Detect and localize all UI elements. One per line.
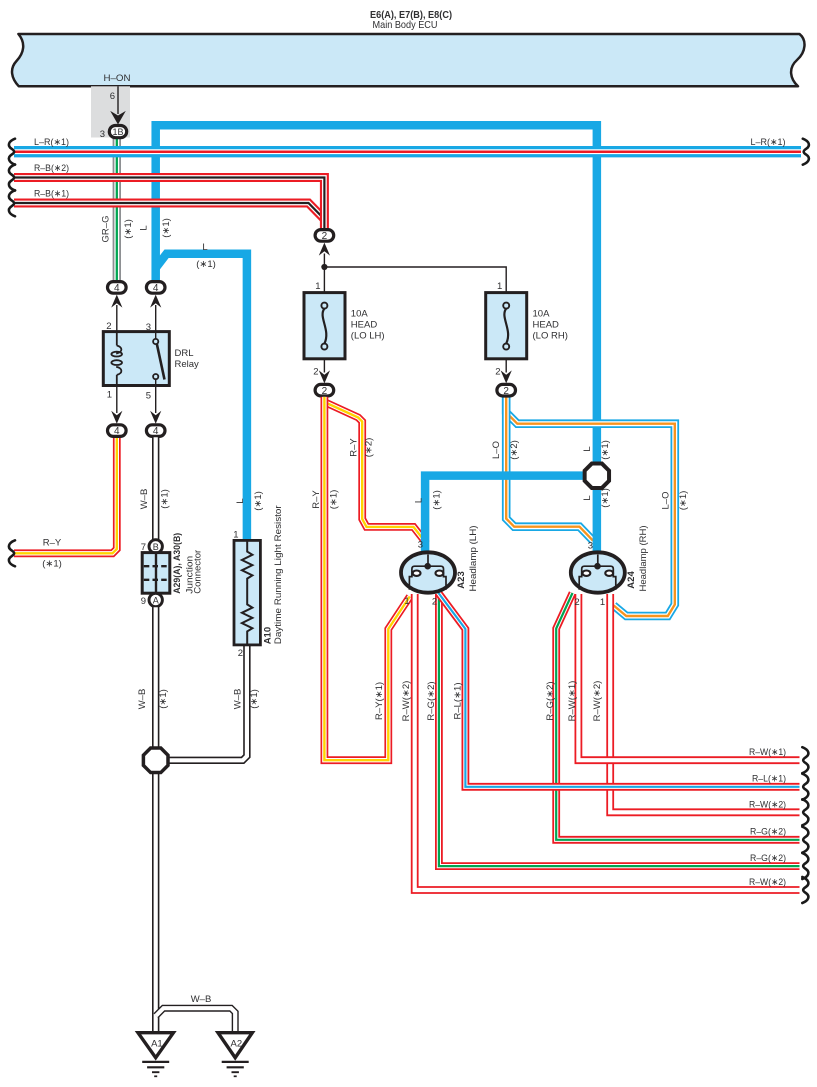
wire fuse LH pin2 bbox=[323, 359, 325, 373]
svg-text:6: 6 bbox=[110, 91, 115, 102]
oval connector 4 (below pin5) bbox=[146, 425, 165, 437]
svg-text:DRL: DRL bbox=[175, 348, 194, 359]
svg-text:R–B(∗2): R–B(∗2) bbox=[34, 163, 69, 174]
svg-text:Main Body ECU: Main Body ECU bbox=[373, 19, 438, 31]
svg-text:(∗1): (∗1) bbox=[42, 559, 62, 570]
svg-text:3: 3 bbox=[418, 540, 423, 551]
svg-text:L: L bbox=[202, 242, 207, 253]
svg-text:1: 1 bbox=[233, 530, 238, 541]
svg-text:GR–G: GR–G bbox=[101, 216, 112, 243]
octagon splice (ground) bbox=[143, 748, 168, 773]
arrow up into oval 4 left bbox=[111, 295, 122, 308]
wire R-B (*2) horizontal + drop bbox=[14, 178, 324, 229]
ground A2 triangle bbox=[218, 1033, 252, 1058]
break symbol right R-W(*2) bbox=[802, 799, 808, 825]
svg-text:1: 1 bbox=[404, 596, 409, 607]
svg-text:A29(A), A30(B): A29(A), A30(B) bbox=[172, 533, 183, 594]
fuse 10A HEAD (LO LH) bbox=[304, 293, 345, 359]
wire L thick trunk (cyan) bbox=[156, 125, 597, 462]
svg-text:HEAD: HEAD bbox=[533, 320, 560, 331]
svg-text:(LO RH): (LO RH) bbox=[533, 331, 568, 342]
svg-text:W–B: W–B bbox=[139, 489, 150, 510]
wire L-O (*1) fuse RH to headlamp RH pin1 bbox=[506, 397, 675, 616]
wire R-L (*1) headlamp LH pin2 to output2 bbox=[439, 593, 800, 787]
svg-text:2: 2 bbox=[322, 386, 328, 397]
svg-text:HEAD: HEAD bbox=[351, 320, 378, 331]
break symbol left L-R bbox=[9, 139, 15, 165]
svg-text:Connector: Connector bbox=[193, 550, 204, 594]
wire R-G (*2) headlamp LH pin2 to output5 bbox=[439, 594, 800, 866]
oval connector 4 (below pin1) bbox=[108, 425, 127, 437]
break symbol left R-B2 bbox=[9, 165, 15, 191]
wire R-G (*2) headlamp RH pin2 to output4 bbox=[556, 593, 799, 840]
svg-text:R–Y(∗1): R–Y(∗1) bbox=[374, 682, 385, 720]
wire from relay pin 1 bbox=[116, 386, 118, 414]
wire R-Y relay pin1 to left break bbox=[14, 437, 117, 553]
wire R-W (*2) headlamp LH pin1 to output6 bbox=[415, 594, 800, 890]
svg-text:R–G(∗2): R–G(∗2) bbox=[750, 827, 786, 838]
svg-text:Daytime Running Light Resistor: Daytime Running Light Resistor bbox=[273, 505, 284, 644]
svg-text:R–W(∗2): R–W(∗2) bbox=[749, 877, 786, 888]
svg-text:1: 1 bbox=[315, 281, 320, 292]
svg-text:(∗1): (∗1) bbox=[196, 259, 216, 270]
junction node dot bbox=[321, 264, 327, 270]
svg-text:L: L bbox=[414, 498, 425, 503]
wire L-O (*2) fuse RH to headlamp RH pin3 bbox=[506, 399, 593, 541]
svg-text:(∗1): (∗1) bbox=[253, 491, 264, 511]
wire R-B (*1) horizontal merge bbox=[14, 203, 324, 219]
wire W-B octagon to A10 pin2 bbox=[167, 645, 247, 760]
svg-text:A23: A23 bbox=[456, 571, 467, 588]
connector shade box (pin 6 / 1B) bbox=[91, 86, 130, 137]
wire R-W (*2) headlamp RH pin1 to output3 bbox=[610, 594, 799, 812]
svg-text:R–W(∗1): R–W(∗1) bbox=[567, 681, 578, 722]
svg-text:L: L bbox=[582, 495, 593, 500]
svg-text:R–L(∗1): R–L(∗1) bbox=[453, 683, 464, 720]
svg-text:(∗1): (∗1) bbox=[600, 488, 611, 508]
svg-text:2: 2 bbox=[503, 386, 509, 397]
oval connector 2 below fuse RH bbox=[497, 384, 516, 396]
svg-text:L: L bbox=[582, 446, 593, 451]
ground symbol A2 bbox=[222, 1062, 249, 1076]
wire L branch to DRL resistor bbox=[156, 254, 247, 541]
arrow into 1B bbox=[110, 111, 126, 125]
svg-text:4: 4 bbox=[153, 283, 159, 294]
svg-text:2: 2 bbox=[313, 367, 318, 378]
svg-text:1: 1 bbox=[497, 281, 502, 292]
arrow up into oval 2 bbox=[319, 243, 330, 256]
svg-text:A2: A2 bbox=[230, 1039, 242, 1050]
svg-text:H–ON: H–ON bbox=[104, 73, 131, 84]
svg-text:3: 3 bbox=[100, 129, 105, 140]
svg-text:(∗1): (∗1) bbox=[329, 490, 340, 510]
svg-text:W–B: W–B bbox=[233, 689, 244, 710]
svg-text:2: 2 bbox=[432, 597, 437, 608]
wire W-B oval4 to circle B bbox=[152, 437, 159, 539]
svg-text:2: 2 bbox=[238, 648, 243, 659]
break symbol right R-W(*1) bbox=[802, 747, 808, 773]
svg-text:R–L(∗1): R–L(∗1) bbox=[752, 774, 786, 785]
wire GR-G from 1B to relay bbox=[113, 139, 121, 281]
resistor element bbox=[242, 540, 253, 645]
svg-text:10A: 10A bbox=[533, 309, 551, 320]
svg-text:R–B(∗1): R–B(∗1) bbox=[34, 189, 69, 200]
relay coil bbox=[111, 332, 122, 386]
arrow up into oval 4 right bbox=[150, 295, 161, 308]
svg-text:R–W(∗2): R–W(∗2) bbox=[401, 681, 412, 722]
svg-text:(∗1): (∗1) bbox=[432, 490, 443, 510]
svg-text:(∗2): (∗2) bbox=[509, 440, 520, 460]
svg-text:W–B: W–B bbox=[191, 994, 212, 1005]
circle terminal B bbox=[149, 540, 162, 553]
svg-text:1: 1 bbox=[600, 597, 605, 608]
wire L drop to headlamp LH pin3 bbox=[425, 476, 583, 553]
svg-text:2: 2 bbox=[495, 367, 500, 378]
wire R-Y (*2) fuse LH to headlamp LH pin3 bbox=[324, 402, 426, 544]
ground symbol A1 bbox=[142, 1062, 169, 1076]
svg-text:10A: 10A bbox=[351, 309, 369, 320]
break symbol right R-G(*2) #5 bbox=[802, 853, 808, 879]
octagon splice L bbox=[585, 464, 609, 488]
svg-text:(∗1): (∗1) bbox=[249, 689, 260, 709]
wire L-R (*1) horizontal bbox=[14, 146, 801, 157]
svg-text:Headlamp (RH): Headlamp (RH) bbox=[638, 526, 649, 592]
svg-text:(∗1): (∗1) bbox=[160, 489, 171, 509]
break symbol right L-R bbox=[803, 139, 809, 165]
svg-text:1B: 1B bbox=[112, 127, 123, 137]
svg-text:L–O: L–O bbox=[491, 441, 502, 459]
circle terminal A bbox=[149, 593, 162, 606]
svg-text:4: 4 bbox=[153, 426, 159, 437]
oval connector 2 (R-B feed) bbox=[315, 230, 334, 242]
oval connector 2 below fuse LH bbox=[315, 384, 334, 396]
headlamp A24 body bbox=[571, 552, 625, 592]
arrow down into oval 2 LH bbox=[319, 370, 330, 383]
wire to relay pin 3 bbox=[155, 305, 157, 332]
svg-text:R–W(∗2): R–W(∗2) bbox=[749, 799, 786, 810]
relay switch bbox=[153, 332, 164, 386]
wire from relay pin 5 bbox=[155, 386, 157, 414]
wire W-B circle A to octagon bbox=[152, 607, 159, 747]
svg-text:9: 9 bbox=[141, 596, 146, 607]
svg-text:R–W(∗1): R–W(∗1) bbox=[749, 747, 786, 758]
svg-text:(LO LH): (LO LH) bbox=[351, 331, 385, 342]
wire W-B octagon to grounds bbox=[152, 774, 159, 1033]
svg-text:(∗1): (∗1) bbox=[600, 440, 611, 460]
DRL relay box bbox=[103, 332, 169, 386]
wire R-W (*1) headlamp RH pin2 to output1 bbox=[578, 594, 799, 760]
svg-text:Relay: Relay bbox=[175, 359, 200, 370]
svg-text:5: 5 bbox=[146, 391, 151, 402]
svg-text:A1: A1 bbox=[151, 1039, 163, 1050]
svg-text:(∗1): (∗1) bbox=[158, 689, 169, 709]
wire R-Y (*1) fuse LH to headlamp LH pin1 bbox=[324, 397, 409, 760]
svg-text:L–R(∗1): L–R(∗1) bbox=[751, 137, 786, 148]
svg-text:A24: A24 bbox=[626, 571, 637, 589]
oval connector 4 (relay pin3 top) bbox=[146, 282, 165, 294]
headlamp A23 body bbox=[401, 552, 455, 592]
svg-text:L: L bbox=[139, 225, 150, 230]
svg-text:(∗1): (∗1) bbox=[123, 219, 134, 239]
ground A1 triangle bbox=[138, 1033, 173, 1058]
svg-text:Headlamp (LH): Headlamp (LH) bbox=[468, 526, 479, 592]
Main Body ECU band E6/E7/E8 bbox=[12, 34, 804, 86]
svg-text:(∗1): (∗1) bbox=[161, 218, 172, 238]
break symbol left R-Y bbox=[9, 540, 15, 566]
svg-text:R–G(∗2): R–G(∗2) bbox=[545, 681, 556, 720]
svg-text:R–Y: R–Y bbox=[43, 538, 62, 549]
svg-text:2: 2 bbox=[574, 597, 579, 608]
svg-text:W–B: W–B bbox=[137, 689, 148, 710]
A10 resistor box bbox=[234, 540, 260, 645]
break symbol left R-B1 bbox=[9, 190, 15, 216]
svg-text:L: L bbox=[235, 498, 246, 503]
arrow down into oval 2 RH bbox=[501, 370, 512, 383]
wire W-B branch to A2 bbox=[156, 1008, 235, 1033]
svg-text:4: 4 bbox=[114, 283, 120, 294]
break symbol right R-L(*1) bbox=[802, 774, 808, 800]
junction connector A29/A30 box bbox=[142, 553, 170, 594]
svg-text:A10: A10 bbox=[262, 627, 273, 644]
break symbol right R-W(*2) #6 bbox=[802, 877, 808, 903]
svg-text:R–G(∗2): R–G(∗2) bbox=[426, 681, 437, 720]
svg-text:R–W(∗2): R–W(∗2) bbox=[592, 681, 603, 722]
svg-text:R–Y: R–Y bbox=[349, 438, 360, 457]
svg-text:4: 4 bbox=[114, 426, 120, 437]
svg-text:R–G(∗2): R–G(∗2) bbox=[750, 853, 786, 864]
fuse 10A HEAD (LO RH) bbox=[486, 293, 527, 359]
wire fuse RH pin2 bbox=[505, 359, 507, 373]
svg-text:B: B bbox=[153, 542, 159, 552]
oval connector 4 (relay pin2 top) bbox=[108, 282, 127, 294]
svg-text:R–Y: R–Y bbox=[311, 490, 322, 509]
arrow down into oval 4 (pin5) bbox=[150, 411, 161, 424]
svg-text:L–R(∗1): L–R(∗1) bbox=[34, 137, 69, 148]
svg-text:1: 1 bbox=[107, 390, 112, 401]
break symbol right R-G(*2) bbox=[802, 827, 808, 853]
wire junction to fuses bbox=[324, 254, 506, 293]
svg-text:2: 2 bbox=[322, 231, 328, 242]
arrow down into oval 4 (pin1) bbox=[111, 411, 122, 424]
svg-text:A: A bbox=[153, 596, 159, 606]
svg-text:(∗1): (∗1) bbox=[678, 491, 689, 511]
svg-text:(∗2): (∗2) bbox=[364, 438, 375, 458]
wire from ECU pin 6 bbox=[117, 86, 119, 114]
wire L drop octagon to headlamp RH pin3 bbox=[593, 489, 602, 552]
oval connector 1B bbox=[109, 126, 126, 138]
svg-text:3: 3 bbox=[588, 541, 593, 552]
wire to relay pin 2 bbox=[116, 305, 118, 332]
svg-text:L–O: L–O bbox=[661, 492, 672, 510]
